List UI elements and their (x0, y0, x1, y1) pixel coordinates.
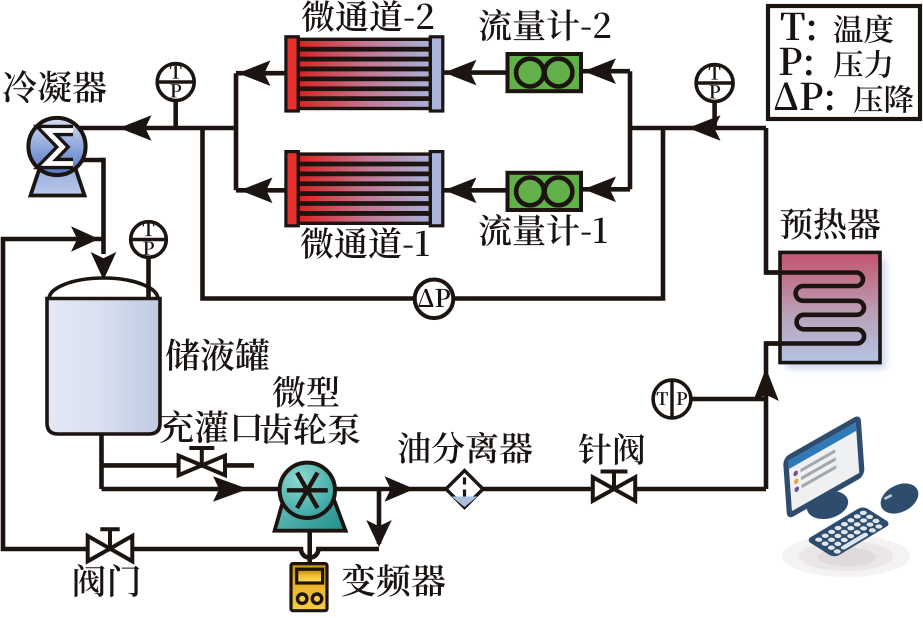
wire: flowmeter-2 feed line (581, 69, 630, 74)
bypass valve (88, 529, 133, 561)
flowmeter-1 (508, 173, 582, 210)
label charge port (160, 410, 261, 443)
legend box (768, 6, 920, 119)
charge port valve (179, 448, 225, 475)
wire: pump discharge line (333, 487, 448, 492)
preheater shadow (786, 259, 886, 369)
arrow into condenser (119, 115, 152, 141)
flowmeter-2 (508, 54, 582, 91)
inverter device (291, 564, 327, 611)
condenser circle with sigma (28, 118, 85, 175)
wire: TP gauge stem right (712, 100, 717, 128)
label microchannel-1 (301, 227, 429, 259)
arrow on main pipe right (688, 115, 721, 141)
wire: bypass return left riser and top (3, 239, 379, 558)
arrow into tank top (91, 252, 117, 280)
arrow pump suction (213, 476, 248, 502)
wire: charge port branch (102, 463, 255, 468)
legend line dP (775, 83, 913, 114)
label flowmeter-2 (479, 9, 610, 41)
oil separator (446, 471, 483, 508)
microchannel-1 heat exchanger (286, 152, 443, 226)
arrow into flowmeter-1 (584, 177, 617, 203)
label oil separator (398, 432, 532, 464)
wire: bypass drop (377, 489, 382, 544)
label preheater (780, 208, 880, 240)
wire: right manifold vertical (628, 71, 633, 189)
wire: flowmeter-2 to microchannel-2 (444, 70, 508, 75)
arrow bypass down (366, 520, 392, 547)
label microchannel-2 (302, 0, 433, 32)
preheater box (780, 252, 880, 362)
legend line P (780, 48, 892, 78)
wire: oil separator to needle valve (481, 487, 595, 492)
TP gauge 1 (condenser inlet) (157, 64, 194, 101)
storage tank body (47, 299, 160, 435)
delta-P gauge (415, 280, 454, 319)
arrow into flowmeter-2 (584, 58, 617, 84)
arrow mc-1 outlet (240, 178, 273, 204)
wire: flowmeter-1 to microchannel-1 (444, 188, 508, 193)
computer workstation (782, 414, 923, 577)
label needle valve (579, 433, 645, 465)
wire: delta-P right segment and tap (452, 128, 663, 299)
legend line T (781, 13, 893, 43)
wire: pump to inverter signal stem (307, 528, 312, 566)
arrow on return to tank (71, 226, 99, 252)
gear pump base (275, 473, 346, 531)
label flowmeter-1 (479, 214, 607, 246)
arrow mc-2 inlet (444, 60, 477, 86)
label inverter (342, 564, 445, 597)
arrow mc-2 outlet (238, 60, 271, 86)
arrow riser up (753, 368, 779, 401)
wire: delta-P left tap (203, 128, 417, 299)
wire: TP gauge stem at preheater (690, 397, 766, 402)
label micro gear pump line2 (260, 413, 359, 445)
condenser base (31, 164, 85, 196)
wire: pump suction line (102, 487, 282, 492)
label condenser (3, 70, 106, 103)
wire: needle valve to riser (633, 487, 766, 492)
needle valve (593, 472, 635, 501)
TP gauge 3 (preheater inlet) (653, 380, 691, 418)
wire: tank outlet drop (99, 432, 104, 489)
label micro gear pump line1 (273, 376, 339, 408)
wire: microchannel-2 outlet line (236, 71, 287, 76)
wire: condenser outlet to tank (81, 158, 104, 254)
wire: microchannel-1 outlet line (236, 188, 289, 193)
arrow mc-1 inlet (444, 178, 477, 204)
microchannel-2 heat exchanger (286, 37, 443, 111)
wire: preheater inlet riser (766, 344, 783, 490)
wire: flowmeter-1 feed line (581, 187, 630, 192)
wire: main pipe left segment (manifold to condenser) (77, 126, 236, 131)
preheater coil (766, 273, 864, 344)
TP gauge 4 (preheater outlet) (696, 65, 733, 102)
TP gauge 2 (tank) (131, 222, 167, 297)
arrow pump discharge (385, 476, 415, 502)
storage tank dome (49, 278, 158, 299)
wire: left manifold vertical (234, 73, 239, 190)
label bypass valve (75, 564, 140, 597)
wire: main pipe right segment (630, 126, 766, 131)
wire: preheater outlet riser (766, 128, 783, 273)
wire: TP gauge stem at condenser (173, 100, 178, 128)
gear pump circle (280, 463, 335, 518)
label storage tank (166, 338, 269, 371)
